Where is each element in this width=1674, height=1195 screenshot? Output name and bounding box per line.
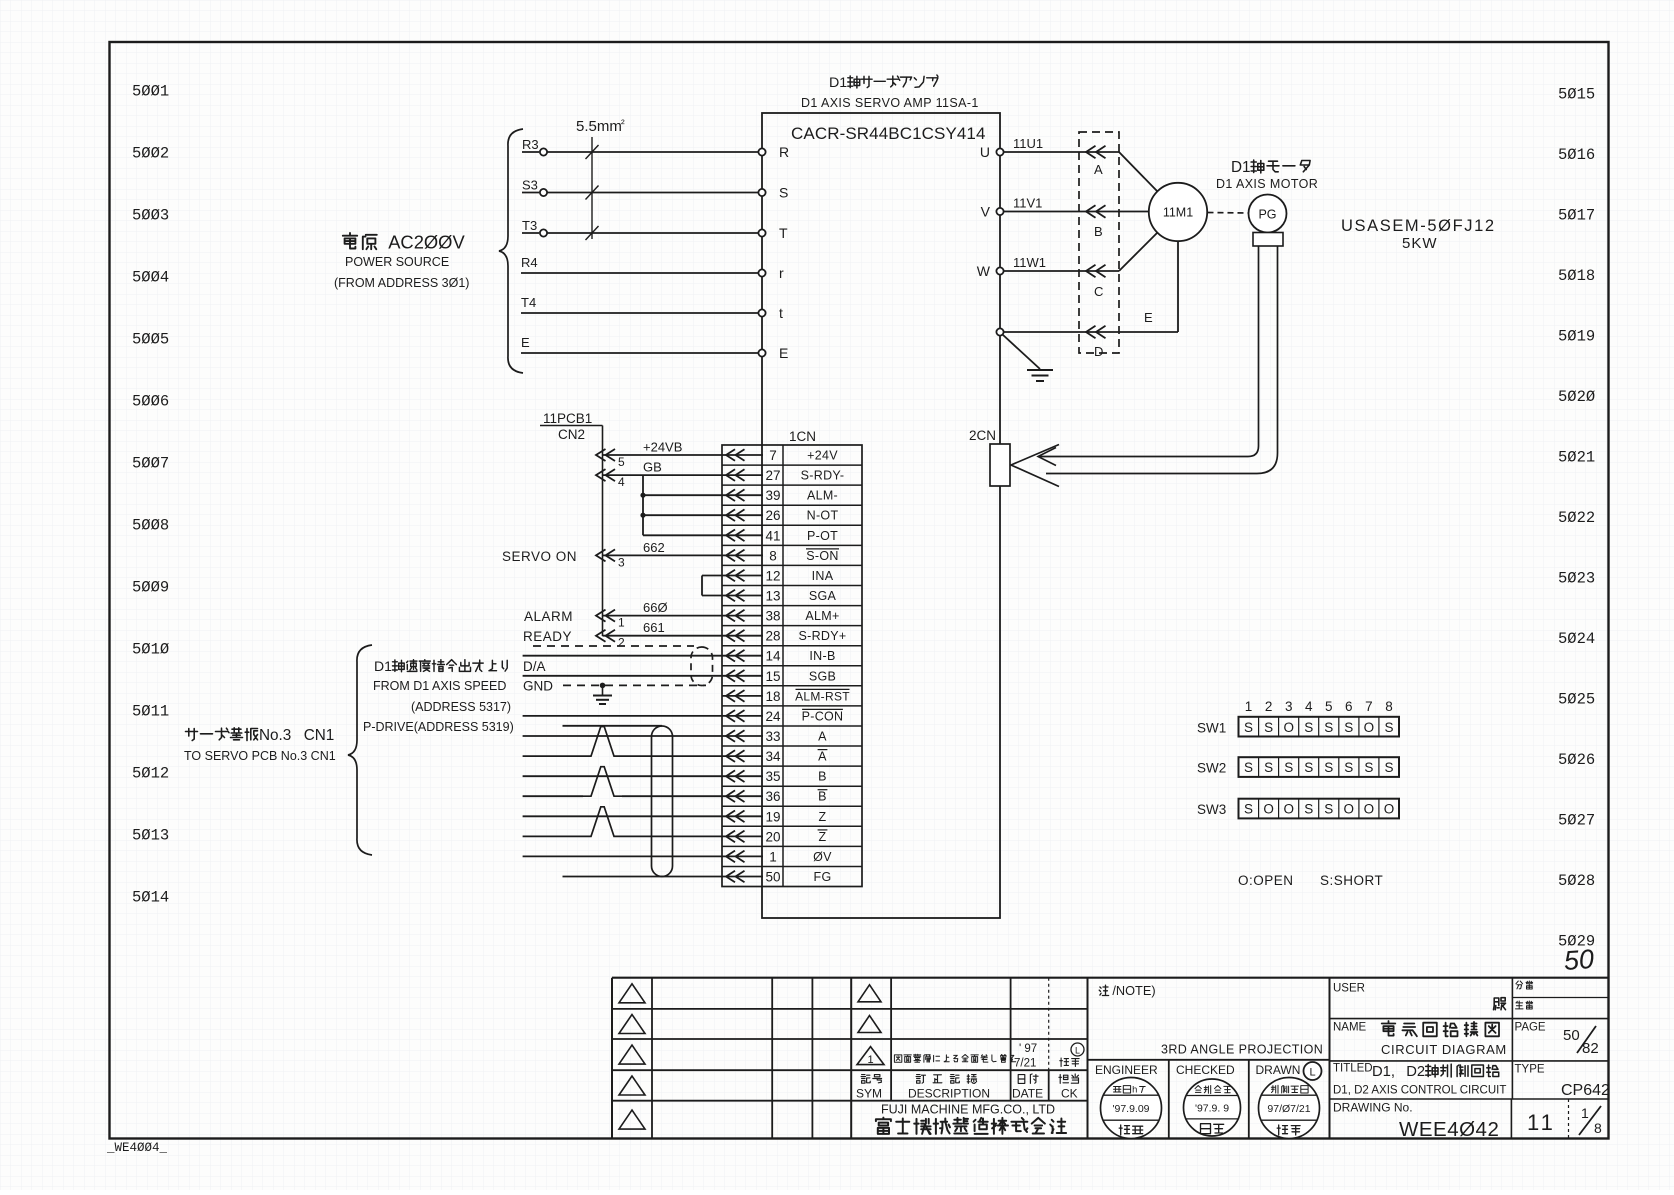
node 1CN pin 28 S-RDY+ row <box>722 629 847 644</box>
node switch SW3 <box>1197 799 1399 819</box>
wire GND dashed <box>563 684 706 686</box>
node 1CN pin 36 B row <box>722 789 827 804</box>
svg-text:WEE4Ø42: WEE4Ø42 <box>1399 1118 1499 1141</box>
svg-text:E: E <box>521 335 530 350</box>
svg-text:P-DRIVE(ADDRESS 5319): P-DRIVE(ADDRESS 5319) <box>363 720 514 734</box>
svg-text:CK: CK <box>1061 1087 1078 1101</box>
wire encoder pair rows 19-20 <box>523 807 722 837</box>
node shield ellipse around pins 14-15 <box>691 647 713 686</box>
svg-text:7/21: 7/21 <box>1014 1058 1036 1070</box>
node 1CN pin 20 Z row <box>722 829 827 844</box>
svg-text:5Ø16: 5Ø16 <box>1558 146 1595 164</box>
svg-text:S: S <box>1244 720 1253 735</box>
svg-text:D1, D2 AXIS CONTROL CIRCUIT: D1, D2 AXIS CONTROL CIRCUIT <box>1333 1085 1506 1097</box>
wire R4 power line to pin r <box>521 255 784 281</box>
svg-text:S-RDY-: S-RDY- <box>801 469 845 483</box>
svg-text:5ØØ7: 5ØØ7 <box>132 455 169 473</box>
svg-text:38: 38 <box>765 609 780 624</box>
svg-text:SYM: SYM <box>856 1087 882 1101</box>
svg-text:+24V: +24V <box>807 449 838 463</box>
svg-text:T3: T3 <box>522 218 537 233</box>
svg-text:S:SHORT: S:SHORT <box>1320 873 1383 888</box>
wire V to motor <box>1119 211 1149 213</box>
wire P-CON line to pin 24 <box>523 715 722 717</box>
svg-text:12: 12 <box>765 569 780 584</box>
node bunban seiban cells <box>1516 981 1523 989</box>
wire IN-B to pin 14 <box>523 655 722 657</box>
wire gauge measure line with slashes <box>586 137 599 240</box>
svg-text:O:OPEN: O:OPEN <box>1238 873 1294 888</box>
svg-text:41: 41 <box>765 528 780 543</box>
svg-text:8: 8 <box>1385 699 1393 714</box>
svg-text:INA: INA <box>812 569 834 583</box>
svg-text:USASEM-5ØFJ12: USASEM-5ØFJ12 <box>1341 217 1496 235</box>
svg-text:ØV: ØV <box>813 850 832 864</box>
svg-text:DATE: DATE <box>1012 1087 1043 1101</box>
node stamps row dividers <box>1169 978 1330 1139</box>
node switch column numbers 1-8 <box>1245 699 1393 714</box>
svg-text:(FROM ADDRESS 3Ø1): (FROM ADDRESS 3Ø1) <box>334 276 469 290</box>
node header SYM <box>861 1075 870 1084</box>
svg-text:CN1: CN1 <box>304 727 335 744</box>
svg-text:T4: T4 <box>521 295 536 310</box>
svg-text:A: A <box>818 750 827 764</box>
svg-text:ALM+: ALM+ <box>805 609 839 623</box>
svg-text:1: 1 <box>867 1054 873 1066</box>
svg-text:4: 4 <box>618 475 625 489</box>
svg-text:5Ø2Ø: 5Ø2Ø <box>1558 388 1595 406</box>
svg-text:D1: D1 <box>374 658 392 674</box>
svg-text:IN-B: IN-B <box>809 649 835 663</box>
node 1CN pin 13 SGA row <box>722 589 837 604</box>
svg-text:S: S <box>1324 802 1333 817</box>
svg-text:5ØØ2: 5ØØ2 <box>132 145 169 163</box>
svg-text:h: h <box>1132 1085 1137 1095</box>
wire T4 power line to pin t <box>521 295 783 321</box>
svg-text:Z: Z <box>819 810 827 824</box>
svg-text:t: t <box>779 305 783 321</box>
svg-text:661: 661 <box>643 620 665 635</box>
svg-text:D1 AXIS MOTOR: D1 AXIS MOTOR <box>1216 177 1318 191</box>
svg-text:S: S <box>1304 802 1313 817</box>
wire shield stub to oval top <box>563 725 663 727</box>
svg-text:SERVO ON: SERVO ON <box>502 549 577 564</box>
svg-text:W: W <box>977 263 991 279</box>
svg-text:D1: D1 <box>829 75 847 91</box>
svg-text:T: T <box>779 225 788 241</box>
svg-text:O: O <box>1364 802 1375 817</box>
svg-text:O: O <box>1283 720 1294 735</box>
svg-text:S: S <box>1304 760 1313 775</box>
node 1CN pin 12 INA row <box>722 569 834 584</box>
svg-text:50: 50 <box>765 870 780 885</box>
svg-text:S: S <box>1324 760 1333 775</box>
svg-text:/NOTE): /NOTE) <box>1112 983 1155 998</box>
node ladder numbers right 5015-5029 <box>1558 86 1595 951</box>
svg-text:²: ² <box>621 118 625 130</box>
svg-text:5Ø14: 5Ø14 <box>132 889 169 907</box>
svg-text:B: B <box>818 770 827 784</box>
op-amp block servo amplifier 11SA-1 outline <box>762 113 1000 918</box>
svg-text:D2: D2 <box>1406 1064 1425 1080</box>
svg-text:N-OT: N-OT <box>807 509 839 523</box>
wire S3 power line to pin S <box>522 178 788 201</box>
svg-text:' 97: ' 97 <box>1019 1043 1037 1055</box>
wire encoder pair rows 33-34 <box>523 727 722 757</box>
svg-text:66Ø: 66Ø <box>643 600 668 615</box>
svg-text:GB: GB <box>643 460 662 475</box>
svg-text:GND: GND <box>523 679 553 694</box>
svg-text:CP642: CP642 <box>1561 1082 1610 1099</box>
svg-text:35: 35 <box>765 769 780 784</box>
svg-text:O: O <box>1384 802 1395 817</box>
svg-text:O: O <box>1283 802 1294 817</box>
svg-text:36: 36 <box>765 789 780 804</box>
svg-text:5Ø1Ø: 5Ø1Ø <box>132 641 169 659</box>
svg-text:5Ø19: 5Ø19 <box>1558 328 1595 346</box>
svg-text:DRAWN: DRAWN <box>1256 1063 1301 1077</box>
node 1CN pin 33 A row <box>722 729 827 744</box>
wire U diagonal to motor <box>1119 152 1158 192</box>
svg-text:B: B <box>818 790 827 804</box>
node header CK <box>1059 1075 1069 1084</box>
svg-text:5.5mm: 5.5mm <box>576 118 622 135</box>
svg-text:R4: R4 <box>521 255 538 270</box>
wire encoder pair rows 35-36 <box>523 767 722 797</box>
svg-text:5Ø17: 5Ø17 <box>1558 207 1595 225</box>
svg-text:5ØØ6: 5ØØ6 <box>132 393 169 411</box>
svg-text:5Ø21: 5Ø21 <box>1558 449 1595 467</box>
svg-text:S: S <box>1284 760 1293 775</box>
transistor? no: motor 11M1 circle <box>1149 183 1207 241</box>
svg-text:39: 39 <box>765 488 780 503</box>
svg-text:B: B <box>1094 224 1103 239</box>
svg-text:33: 33 <box>765 729 780 744</box>
svg-text:S: S <box>1304 720 1313 735</box>
svg-text:24: 24 <box>765 709 781 724</box>
svg-text:5ØØ9: 5ØØ9 <box>132 579 169 597</box>
node revision triangle row1 <box>858 985 881 1002</box>
node 1CN pin 41 P-OT row <box>722 528 838 543</box>
svg-text:2CN: 2CN <box>969 428 996 443</box>
svg-text:5ØØ5: 5ØØ5 <box>132 331 169 349</box>
svg-text:5: 5 <box>1325 699 1333 714</box>
wire CN2 pin 1 signal 66Ø <box>596 600 722 630</box>
svg-text:S-ON: S-ON <box>806 549 838 563</box>
svg-text:FG: FG <box>814 870 832 884</box>
wire W diagonal to motor <box>1119 233 1158 272</box>
wire E power line to pin E <box>521 335 788 361</box>
svg-text:S: S <box>1244 802 1253 817</box>
node 1CN pin 14 IN-B row <box>722 649 836 664</box>
wire motor ground E <box>996 242 1178 339</box>
svg-text:11U1: 11U1 <box>1013 136 1043 151</box>
svg-text:TITLED: TITLED <box>1333 1063 1373 1075</box>
svg-text:READY: READY <box>523 629 572 644</box>
svg-text:8: 8 <box>769 548 777 563</box>
svg-text:3RD ANGLE PROJECTION: 3RD ANGLE PROJECTION <box>1161 1043 1323 1057</box>
node revision description row3 <box>894 1055 901 1062</box>
wire CN2 pin 3 signal 662 <box>596 540 722 570</box>
svg-text:1: 1 <box>769 849 777 864</box>
svg-text:27: 27 <box>765 468 780 483</box>
svg-text:S: S <box>1264 760 1273 775</box>
svg-text:E: E <box>779 345 788 361</box>
node revision table SYM/DESCRIPTION <box>851 978 1087 1139</box>
svg-text:CIRCUIT DIAGRAM: CIRCUIT DIAGRAM <box>1381 1042 1507 1057</box>
node 1CN pin 15 SGB row <box>722 669 836 684</box>
svg-text:TYPE: TYPE <box>1515 1064 1545 1076</box>
svg-text:PG: PG <box>1258 208 1276 222</box>
wire motor phase U 11U1 <box>980 136 1119 160</box>
svg-text:D1: D1 <box>1231 159 1251 176</box>
svg-text:15: 15 <box>765 669 780 684</box>
node servo pcb brace <box>348 645 372 855</box>
svg-text:5Ø24: 5Ø24 <box>1558 630 1595 648</box>
svg-text:SW1: SW1 <box>1197 720 1226 735</box>
node right title block grid <box>1330 978 1610 1139</box>
svg-text:DESCRIPTION: DESCRIPTION <box>908 1087 990 1101</box>
svg-text:1: 1 <box>1581 1105 1589 1121</box>
svg-text:S3: S3 <box>522 178 538 193</box>
node switch SW2 <box>1197 757 1399 777</box>
node ladder numbers left 5001-5014 <box>132 83 169 907</box>
svg-text:P-OT: P-OT <box>807 529 838 543</box>
svg-text:_WE4ØØ4_: _WE4ØØ4_ <box>106 1141 168 1155</box>
node encoder PG circle <box>1249 195 1287 233</box>
svg-text:USER: USER <box>1333 983 1365 995</box>
node header DATE <box>1018 1075 1025 1084</box>
svg-text:D/A: D/A <box>523 659 546 674</box>
node 1CN pin 19 Z row <box>722 809 827 824</box>
node motor terminal dashed box <box>1079 132 1119 353</box>
svg-text:5Ø26: 5Ø26 <box>1558 751 1595 769</box>
svg-text:SGB: SGB <box>809 669 836 683</box>
node handwritten sheet number 50 <box>1563 944 1595 976</box>
svg-text:1: 1 <box>1245 699 1253 714</box>
node revision triangle left 4 <box>619 1076 645 1095</box>
node 1CN pin 39 ALM- row <box>722 488 838 503</box>
svg-text:5: 5 <box>618 455 625 469</box>
svg-text:13: 13 <box>765 589 780 604</box>
svg-text:5ØØ4: 5ØØ4 <box>132 269 169 287</box>
svg-text:5Ø25: 5Ø25 <box>1558 691 1595 709</box>
svg-text:E: E <box>1144 310 1153 325</box>
wire CN2 pin 5 signal +24VB <box>596 440 722 470</box>
node revision triangle left 5 <box>619 1110 645 1129</box>
node CK circled L row3 <box>1071 1043 1084 1056</box>
svg-text:97/Ø7/21: 97/Ø7/21 <box>1267 1103 1310 1115</box>
svg-text:ALARM: ALARM <box>524 609 573 624</box>
svg-text:18: 18 <box>765 689 780 704</box>
svg-text:2: 2 <box>618 636 625 650</box>
wire shield dashed upper (pin14 shield) <box>533 645 694 647</box>
svg-text:FUJI MACHINE MFG.CO., LTD: FUJI MACHINE MFG.CO., LTD <box>881 1103 1055 1117</box>
svg-text:L: L <box>1309 1067 1315 1079</box>
svg-text:POWER SOURCE: POWER SOURCE <box>345 255 449 269</box>
svg-text:4: 4 <box>1305 699 1313 714</box>
svg-text:S: S <box>1264 720 1273 735</box>
node 1CN pin 38 ALM+ row <box>722 609 840 624</box>
svg-text:D1,: D1, <box>1372 1064 1395 1080</box>
node 1CN pin 50 FG row <box>722 870 831 885</box>
svg-text:6: 6 <box>1345 699 1353 714</box>
svg-text:28: 28 <box>765 629 780 644</box>
svg-text:+24VB: +24VB <box>643 440 682 455</box>
svg-text:11V1: 11V1 <box>1013 196 1042 211</box>
svg-text:5Ø11: 5Ø11 <box>132 703 169 721</box>
node 1CN pin 24 P-CON row <box>722 709 843 724</box>
svg-text:5Ø12: 5Ø12 <box>132 765 169 783</box>
wire encoder cable to 2CN <box>1011 246 1278 487</box>
svg-text:O: O <box>1263 802 1274 817</box>
svg-text:2: 2 <box>1265 699 1273 714</box>
svg-text:3: 3 <box>618 555 625 569</box>
svg-text:20: 20 <box>765 829 780 844</box>
svg-text:A: A <box>1094 162 1103 177</box>
svg-text:5ØØ3: 5ØØ3 <box>132 207 169 225</box>
svg-text:SW3: SW3 <box>1197 802 1226 817</box>
svg-text:662: 662 <box>643 540 665 555</box>
svg-text:SGA: SGA <box>809 589 837 603</box>
svg-text:V: V <box>981 204 991 220</box>
svg-text:ALM-: ALM- <box>807 489 838 503</box>
svg-text:SW2: SW2 <box>1197 761 1226 776</box>
svg-text:TO SERVO PCB No.3 CN1: TO SERVO PCB No.3 CN1 <box>184 749 336 763</box>
node 1CN pin 1 ØV row <box>722 849 832 864</box>
ground at amp E terminal <box>1003 335 1054 382</box>
wire CN2 vertical bus <box>602 426 604 637</box>
node cable shield oval <box>652 726 673 877</box>
svg-text:CHECKED: CHECKED <box>1176 1063 1235 1077</box>
svg-text:ALM-RST: ALM-RST <box>795 689 850 703</box>
svg-text:1CN: 1CN <box>789 429 816 444</box>
svg-text:A: A <box>818 730 827 744</box>
svg-text:NAME: NAME <box>1333 1022 1367 1034</box>
node 1CN pin 35 B row <box>722 769 827 784</box>
svg-text:5Ø27: 5Ø27 <box>1558 812 1595 830</box>
svg-text:11M1: 11M1 <box>1163 206 1193 220</box>
svg-text:S: S <box>1344 760 1353 775</box>
node revision triangle left 3 <box>619 1045 645 1064</box>
svg-text:5Ø22: 5Ø22 <box>1558 509 1595 527</box>
wire CN2 pin 4 signal GB <box>596 460 722 490</box>
node 1CN pin 27 S-RDY- row <box>722 468 844 483</box>
wire 0V line pin 1 <box>523 855 722 857</box>
node power source brace <box>499 129 523 373</box>
node 1CN pin 7 +24V row <box>722 448 838 463</box>
svg-text:5ØØ1: 5ØØ1 <box>132 83 169 101</box>
svg-text:R: R <box>779 144 789 160</box>
svg-text:5ØØ8: 5ØØ8 <box>132 517 169 535</box>
wire jumper pins 12-13 <box>702 576 722 596</box>
wire motor phase W 11W1 <box>977 255 1119 279</box>
wire motor phase V 11V1 <box>981 196 1119 220</box>
svg-text:PAGE: PAGE <box>1515 1022 1546 1034</box>
svg-text:FROM D1 AXIS SPEED: FROM D1 AXIS SPEED <box>373 679 506 693</box>
svg-text:14: 14 <box>765 649 781 664</box>
svg-text:S: S <box>1384 760 1393 775</box>
svg-text:O: O <box>1364 720 1375 735</box>
svg-text:S-RDY+: S-RDY+ <box>799 629 847 643</box>
node 1CN pin 34 A row <box>722 749 827 764</box>
node power source label <box>343 233 357 249</box>
svg-text:CN2: CN2 <box>558 427 585 442</box>
node header DESCRIPTION <box>916 1075 925 1084</box>
svg-text:5Ø15: 5Ø15 <box>1558 86 1595 104</box>
svg-text:5Ø23: 5Ø23 <box>1558 570 1595 588</box>
svg-text:5Ø18: 5Ø18 <box>1558 267 1595 285</box>
svg-text:19: 19 <box>765 809 780 824</box>
node revision triangle left 1 <box>619 984 645 1003</box>
svg-text:No.3: No.3 <box>259 727 291 744</box>
svg-text:'97.9.09: '97.9.09 <box>1112 1103 1149 1115</box>
svg-text:O: O <box>1344 802 1355 817</box>
svg-text:P-CON: P-CON <box>802 709 844 723</box>
node label servo pcb japanese <box>186 729 198 741</box>
svg-text:ENGINEER: ENGINEER <box>1095 1063 1158 1077</box>
wire CN2 pin 2 signal 661 <box>596 620 722 650</box>
svg-text:D: D <box>1094 344 1103 359</box>
svg-text:D1 AXIS SERVO AMP 11SA-1: D1 AXIS SERVO AMP 11SA-1 <box>801 96 979 110</box>
node revision triangle left 2 <box>619 1015 645 1034</box>
svg-text:3: 3 <box>1285 699 1293 714</box>
svg-text:S: S <box>1244 760 1253 775</box>
svg-text:'97.9. 9: '97.9. 9 <box>1195 1103 1229 1115</box>
svg-text:Z: Z <box>819 830 827 844</box>
svg-text:82: 82 <box>1582 1040 1599 1057</box>
svg-text:7: 7 <box>1365 699 1373 714</box>
svg-text:11: 11 <box>1527 1110 1556 1135</box>
svg-text:11PCB1: 11PCB1 <box>543 411 592 426</box>
node encoder flange <box>1253 233 1283 247</box>
wire SGB to pin 15 (D/A) <box>523 675 722 677</box>
svg-text:S: S <box>1344 720 1353 735</box>
svg-text:11W1: 11W1 <box>1013 255 1046 270</box>
svg-text:C: C <box>1094 284 1103 299</box>
ground symbol at GND <box>593 683 612 704</box>
svg-text:1: 1 <box>618 616 625 630</box>
svg-text:5Ø28: 5Ø28 <box>1558 872 1595 890</box>
svg-text:R3: R3 <box>522 137 539 152</box>
svg-text:5Ø13: 5Ø13 <box>132 827 169 845</box>
node 1CN pin 26 N-OT row <box>722 508 838 523</box>
svg-text:DRAWING No.: DRAWING No. <box>1333 1101 1413 1115</box>
wire R3 power line to pin R <box>522 137 789 160</box>
node title block left revision table <box>612 978 1609 1139</box>
node switch SW1 <box>1197 717 1399 737</box>
wire T3 power line to pin T <box>522 218 788 241</box>
svg-text:r: r <box>779 265 784 281</box>
svg-text:L: L <box>1075 1046 1080 1056</box>
wire dashed motor to encoder <box>1208 212 1249 215</box>
svg-text:U: U <box>980 144 990 160</box>
svg-text:5KW: 5KW <box>1402 235 1438 252</box>
svg-text:26: 26 <box>765 508 780 523</box>
svg-text:CACR-SR44BC1CSY414: CACR-SR44BC1CSY414 <box>791 124 986 143</box>
node note box <box>1088 1059 1330 1061</box>
node 1CN pin 8 S-ON row <box>722 548 839 563</box>
svg-text:AC2ØØV: AC2ØØV <box>388 232 465 253</box>
node connector 1CN table grid <box>722 445 862 887</box>
svg-text:(ADDRESS 5317): (ADDRESS 5317) <box>411 700 511 714</box>
svg-text:S: S <box>1384 720 1393 735</box>
wire GB branch to pins 39 26 41 <box>640 475 722 535</box>
node revision triangle 1 row3 <box>857 1047 884 1065</box>
svg-text:8: 8 <box>1594 1120 1602 1136</box>
svg-text:50: 50 <box>1563 944 1595 976</box>
node 1CN pin 18 ALM-RST row <box>722 689 850 704</box>
